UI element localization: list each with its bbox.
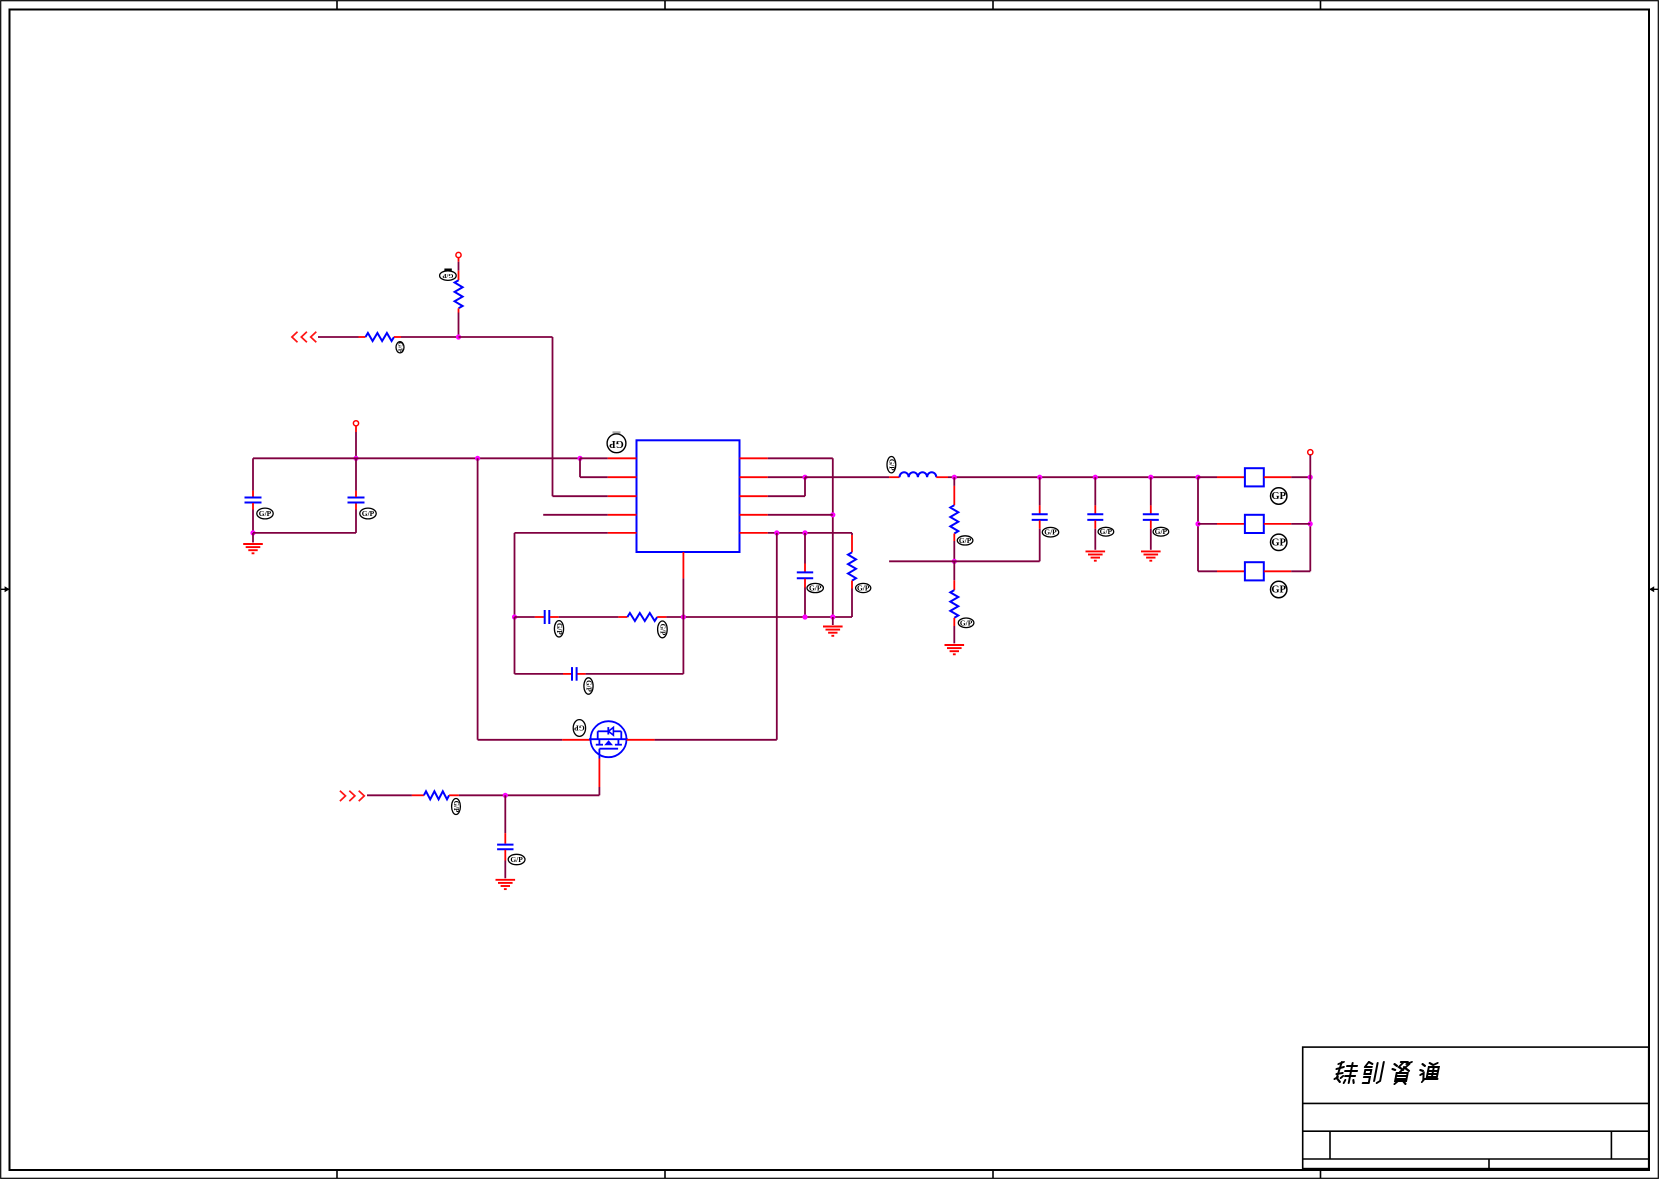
port P1 input <<<: [292, 332, 316, 342]
junction: [1037, 475, 1042, 480]
pin 4: [608, 514, 637, 516]
junction: [952, 475, 957, 480]
ground: [823, 627, 843, 636]
label C2 (G/P): [360, 508, 376, 519]
wire: [553, 495, 608, 497]
wire: [580, 458, 608, 477]
wire: [657, 616, 852, 618]
svg-text:G/P: G/P: [362, 509, 375, 518]
transistor Q1: [589, 721, 628, 758]
wire: [458, 308, 460, 337]
terminal VOUT: [1308, 450, 1313, 455]
wire: [1264, 570, 1311, 572]
junction: [1308, 475, 1313, 480]
wire: [515, 616, 544, 618]
wire: [253, 532, 356, 534]
wire: [578, 673, 684, 675]
svg-text:G/P: G/P: [658, 624, 666, 636]
wire: [355, 503, 357, 533]
wire: [776, 533, 778, 740]
wire: [253, 457, 580, 459]
junction: [1308, 521, 1313, 526]
svg-text:G/P: G/P: [452, 801, 460, 813]
svg-text:GP: GP: [574, 724, 585, 733]
label R5 (G/P): [856, 583, 871, 592]
wire: [550, 616, 627, 618]
wire: [1094, 477, 1096, 513]
ground: [243, 544, 263, 553]
svg-text:G/P: G/P: [959, 536, 972, 545]
wire: [1094, 520, 1096, 549]
label R7 (G/P): [958, 618, 974, 628]
wire: [394, 336, 459, 338]
svg-text:G/P: G/P: [259, 509, 272, 518]
resistor R6: [950, 505, 958, 533]
capacitor C6: [497, 845, 513, 850]
capacitor C5: [572, 667, 577, 681]
capacitor C2: [348, 498, 365, 503]
svg-text:G/P: G/P: [887, 459, 895, 471]
wire: [768, 477, 805, 496]
wire: [504, 795, 506, 843]
wire: [936, 476, 954, 478]
svg-text:G/P: G/P: [397, 342, 404, 353]
wire: [552, 337, 554, 496]
wire: [627, 739, 777, 741]
ferrite bead FB2: [1245, 515, 1264, 533]
svg-text:G/P: G/P: [1044, 528, 1057, 537]
wire: [953, 561, 955, 590]
resistor R4: [627, 613, 657, 621]
junction: [250, 530, 255, 535]
wire: [355, 426, 357, 458]
svg-text:GP: GP: [609, 438, 624, 449]
wire: [682, 578, 684, 674]
wire: [514, 533, 516, 617]
wire: [1309, 455, 1311, 571]
resistor R3: [424, 791, 449, 799]
svg-text:GP: GP: [1271, 491, 1286, 502]
pin 3: [608, 495, 637, 497]
label R1 (G/P): [396, 342, 404, 353]
junction: [1195, 521, 1200, 526]
svg-text:G/P: G/P: [1155, 527, 1168, 536]
pin 2: [608, 476, 637, 478]
wire: [459, 336, 553, 338]
wire: [355, 458, 357, 497]
svg-text:GP: GP: [1271, 537, 1286, 548]
label L1 (G/P): [887, 457, 896, 473]
wire: [1150, 520, 1152, 549]
junction: [512, 614, 517, 619]
junction: [456, 334, 461, 339]
wire: [953, 618, 955, 644]
wire: [1264, 476, 1310, 478]
wire: [804, 533, 806, 572]
pin 7: [740, 514, 768, 516]
ground: [945, 645, 965, 654]
wire: [449, 794, 505, 796]
resistor R2: [455, 280, 463, 308]
svg-text:G/P: G/P: [857, 584, 870, 593]
junction: [830, 512, 835, 517]
wire: [768, 514, 833, 516]
terminal VCC2: [353, 421, 358, 426]
junction: [802, 475, 807, 480]
svg-text:G/P: G/P: [555, 623, 563, 635]
pin 5: [608, 532, 637, 534]
svg-text:G/P: G/P: [510, 855, 523, 864]
wire: [1039, 520, 1041, 561]
inductor L1: [900, 472, 937, 477]
label C3 (G/P): [807, 583, 823, 592]
op-amp U1 body: [637, 440, 740, 552]
wire: [889, 560, 1040, 562]
wire: [953, 477, 955, 505]
label Q1 (GP): [573, 720, 585, 737]
wire: [1039, 477, 1041, 513]
wire: [1264, 523, 1310, 525]
wire: [768, 457, 833, 459]
wire: [318, 336, 366, 338]
junction: [503, 793, 508, 798]
wire: [477, 458, 479, 740]
label FB2 (GP): [1271, 534, 1287, 550]
wire: [1150, 477, 1152, 513]
label U1 (GP): [607, 431, 626, 452]
label FB1 (GP): [1271, 488, 1287, 504]
wire: [505, 794, 599, 796]
capacitor C4: [545, 610, 550, 624]
wire: [514, 617, 516, 674]
capacitor C9: [1143, 514, 1159, 520]
pin 1: [608, 457, 637, 459]
pin 6: [740, 532, 768, 534]
resistor R5: [848, 552, 856, 580]
junction: [830, 614, 835, 619]
label C1 (G/P): [257, 508, 273, 519]
wire: [1198, 523, 1245, 525]
ferrite bead FB3: [1245, 562, 1264, 580]
junction: [1195, 475, 1200, 480]
label C9 (G/P): [1153, 527, 1169, 536]
label C5 (G/P): [584, 678, 593, 694]
junction: [952, 559, 957, 564]
wire: [252, 503, 254, 533]
label R6 (G/P): [957, 536, 973, 545]
wire: [478, 739, 591, 741]
wire: [515, 532, 608, 534]
wire: [832, 617, 834, 625]
wire: [851, 581, 853, 617]
wire: [252, 458, 254, 497]
wire: [252, 533, 254, 543]
wire: [1198, 476, 1245, 478]
capacitor C8: [1087, 514, 1103, 520]
wire: [832, 458, 834, 617]
wire: [598, 759, 600, 796]
svg-text:GP: GP: [1271, 585, 1286, 596]
wire: [804, 579, 806, 617]
capacitor C1: [245, 498, 262, 503]
pin 11: [682, 552, 684, 578]
svg-text:G/P: G/P: [585, 680, 593, 692]
pin 10: [740, 457, 768, 459]
svg-text:G/P: G/P: [809, 584, 822, 593]
label C6 (G/P): [508, 854, 525, 864]
wire: [367, 794, 424, 796]
junction: [681, 614, 686, 619]
resistor R7: [950, 590, 958, 618]
pin 9: [740, 476, 768, 478]
terminal VCC1: [456, 252, 461, 257]
wire: [851, 533, 853, 552]
wire: [458, 258, 460, 281]
label C4 (G/P): [554, 621, 563, 637]
port P2 input >>>: [340, 791, 364, 801]
label R2 (G/P): [440, 269, 457, 281]
wire: [515, 673, 572, 675]
wire: [768, 532, 852, 534]
wire: [953, 534, 955, 562]
wire: [543, 514, 608, 516]
pin 8: [740, 495, 768, 497]
capacitor C3: [797, 572, 813, 578]
label R4 (G/P): [658, 621, 668, 638]
wire: [504, 850, 506, 879]
junction: [774, 530, 779, 535]
svg-text:G/P: G/P: [1100, 527, 1113, 536]
junction: [353, 456, 358, 461]
ground: [496, 880, 516, 889]
svg-text:G/P: G/P: [442, 272, 453, 279]
label C7 (G/P): [1042, 527, 1058, 537]
resistor R1: [366, 333, 395, 341]
label R3 (G/P): [452, 799, 461, 815]
ferrite bead FB1: [1245, 468, 1264, 486]
wire: [954, 476, 1198, 478]
wire: [805, 476, 900, 478]
junction: [1148, 475, 1153, 480]
junction: [802, 530, 807, 535]
junction: [1093, 475, 1098, 480]
svg-text:G/P: G/P: [960, 618, 973, 627]
wire: [1198, 570, 1245, 572]
ground: [1141, 551, 1161, 560]
ground: [1086, 551, 1106, 560]
junction: [577, 456, 582, 461]
wire: [1197, 477, 1199, 571]
junction: [475, 456, 480, 461]
label FB3 (GP): [1271, 581, 1287, 597]
wire: [768, 476, 805, 478]
junction: [802, 614, 807, 619]
label C8 (G/P): [1098, 527, 1114, 536]
wire: [580, 457, 608, 459]
capacitor C7: [1032, 514, 1048, 520]
